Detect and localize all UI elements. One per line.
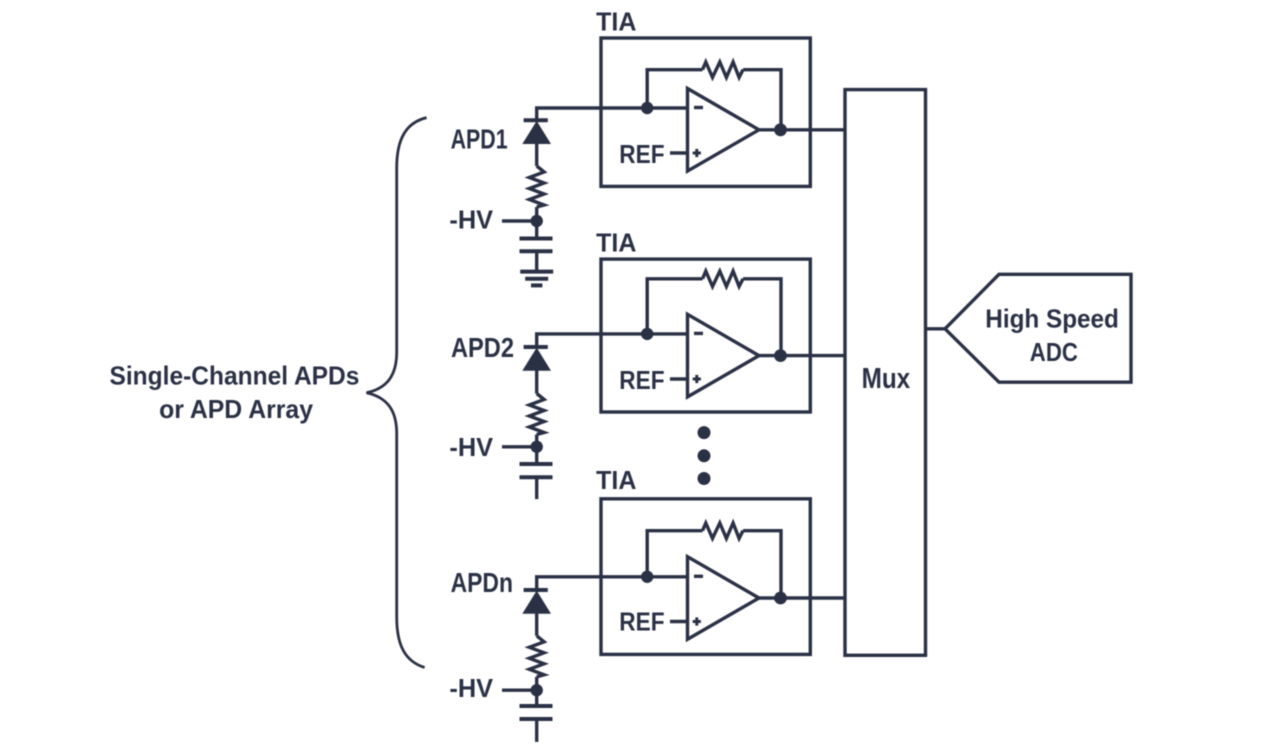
node TIA3 input junction bbox=[641, 571, 653, 583]
ellipsis dots between TIA2 and TIA3 bbox=[698, 426, 711, 485]
wire REF 1 bbox=[670, 151, 688, 154]
svg-text:TIA: TIA bbox=[596, 6, 637, 36]
wire APD1 cathode to TIA1 input bbox=[537, 108, 688, 120]
ground bbox=[520, 272, 553, 286]
node TIA2 input junction bbox=[641, 328, 653, 340]
op-amp U2 minus pin bbox=[694, 332, 703, 335]
Mux box bbox=[845, 90, 926, 656]
node TIA3 output junction bbox=[774, 592, 787, 605]
svg-text:Mux: Mux bbox=[862, 363, 911, 395]
node TIA1 output junction bbox=[774, 123, 787, 136]
capacitor C1 bbox=[520, 239, 553, 252]
wire capacitor Cn tail bbox=[535, 719, 538, 742]
feedback resistor RF1 bbox=[703, 62, 744, 77]
svg-text:REF: REF bbox=[619, 607, 664, 637]
op-amp U3 plus pin bbox=[693, 617, 701, 625]
node -HV junction ch1 bbox=[531, 215, 543, 227]
photodiode APD1 bbox=[524, 120, 550, 143]
High Speed ADC block bbox=[945, 274, 1131, 382]
svg-text:TIA: TIA bbox=[596, 227, 637, 257]
wire resistor to capacitor Cn bbox=[535, 677, 538, 706]
feedback wire TIA2 bbox=[647, 279, 702, 334]
resistor Rn bbox=[529, 636, 544, 677]
wire capacitor C1 to ground bbox=[535, 251, 538, 271]
svg-text:-HV: -HV bbox=[449, 432, 493, 462]
node -HV junction ch2 bbox=[531, 441, 543, 453]
wire Mux to ADC bbox=[926, 327, 946, 330]
svg-text:High Speed: High Speed bbox=[985, 304, 1119, 334]
wire REF 2 bbox=[670, 377, 688, 380]
photodiode APD2 bbox=[524, 347, 550, 370]
wire diode to resistor R1 bbox=[535, 143, 538, 166]
wire -HV ch1 bbox=[502, 219, 537, 222]
wire APD2 cathode to TIA2 input bbox=[537, 334, 688, 347]
op-amp U3 minus pin bbox=[694, 575, 703, 578]
svg-text:-HV: -HV bbox=[449, 204, 493, 234]
wire capacitor C2 tail bbox=[535, 477, 538, 499]
node TIA2 output junction bbox=[774, 349, 787, 362]
feedback wire TIA1 bbox=[647, 70, 702, 108]
op-amp U3 bbox=[688, 557, 760, 640]
feedback wire TIA3 bbox=[647, 531, 702, 577]
node TIA1 input junction bbox=[641, 102, 653, 114]
svg-text:APD2: APD2 bbox=[451, 332, 514, 363]
wire diode to resistor Rn bbox=[535, 613, 538, 636]
TIA2 box bbox=[601, 259, 810, 412]
capacitor Cn bbox=[520, 706, 553, 719]
wire resistor to capacitor C1 bbox=[535, 207, 538, 239]
op-amp U1 minus pin bbox=[694, 106, 703, 109]
TIA3 box bbox=[601, 499, 810, 655]
svg-text:APDn: APDn bbox=[451, 567, 513, 598]
svg-text:-HV: -HV bbox=[449, 673, 493, 703]
svg-text:TIA: TIA bbox=[596, 465, 637, 495]
svg-text:REF: REF bbox=[619, 365, 664, 395]
wire REF 3 bbox=[670, 620, 688, 623]
wire diode to resistor R2 bbox=[535, 370, 538, 394]
wire TIA1 output to Mux bbox=[759, 128, 845, 131]
feedback resistor RF3 bbox=[703, 523, 744, 538]
svg-text:ADC: ADC bbox=[1030, 337, 1078, 367]
wire resistor to capacitor C2 bbox=[535, 435, 538, 465]
op-amp U2 plus pin bbox=[693, 375, 701, 383]
op-amp U2 bbox=[688, 314, 760, 397]
capacitor C2 bbox=[520, 464, 553, 477]
wire APDn cathode to TIA3 input bbox=[537, 577, 688, 590]
wire TIA2 output to Mux bbox=[759, 354, 845, 357]
svg-text:APD1: APD1 bbox=[451, 124, 508, 155]
resistor R1 bbox=[529, 166, 544, 207]
op-amp U1 plus pin bbox=[693, 149, 701, 157]
wire -HV ch n bbox=[502, 689, 537, 692]
wire TIA3 output to Mux bbox=[759, 596, 845, 599]
node -HV junction ch n bbox=[531, 684, 543, 696]
feedback resistor RF2 bbox=[703, 271, 744, 286]
wire -HV ch2 bbox=[502, 445, 537, 448]
svg-text:REF: REF bbox=[619, 139, 664, 169]
TIA1 box bbox=[601, 38, 810, 186]
brace (Single-Channel APDs group) bbox=[367, 118, 427, 668]
svg-text:Single-Channel APDs: Single-Channel APDs bbox=[110, 360, 360, 390]
op-amp U1 bbox=[688, 89, 760, 172]
svg-text:or APD Array: or APD Array bbox=[159, 394, 313, 424]
photodiode APDn bbox=[524, 590, 550, 613]
resistor R2 bbox=[529, 394, 544, 435]
